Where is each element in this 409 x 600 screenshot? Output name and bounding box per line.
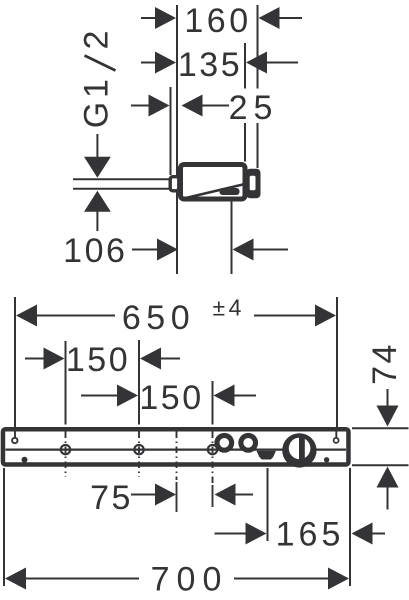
arrowhead 74 down xyxy=(377,406,399,427)
dimension 135 leader right xyxy=(265,62,299,64)
valve right protrusion slot xyxy=(250,176,256,191)
svg-text:2: 2 xyxy=(78,31,116,50)
holder cup trapezoid xyxy=(257,451,277,460)
svg-text:160: 160 xyxy=(184,2,251,40)
dimension 74 shaft upper xyxy=(387,389,389,409)
svg-text:25: 25 xyxy=(229,89,279,127)
extension line 150 x=212.5 xyxy=(212,381,214,425)
extension line x=170.5 for dim 25 xyxy=(170,87,172,175)
svg-text:106: 106 xyxy=(63,232,127,270)
svg-text:74: 74 xyxy=(366,342,404,385)
dimension 700 line left segment xyxy=(23,578,139,580)
dimension 700 line right segment xyxy=(234,578,330,580)
arrowhead G1/2 up xyxy=(84,191,111,212)
dimension 150a leader right xyxy=(158,358,180,360)
dimension 106 leader left xyxy=(132,249,160,251)
centerline crosshair3 x=212.5 xyxy=(212,432,214,484)
extension line 74 top y=428.3 xyxy=(352,427,409,429)
centerline crosshair1 x=65.5 xyxy=(65,432,67,478)
dimension 160 leader left xyxy=(141,17,159,19)
dimension 74 shaft lower xyxy=(387,484,389,510)
dimension 106 leader right xyxy=(251,249,288,251)
select button ring 2 hole xyxy=(243,438,253,448)
extension line x=231.5 for dim 106 xyxy=(231,196,233,274)
arrowhead 700 right xyxy=(328,568,349,590)
svg-text:700: 700 xyxy=(151,561,229,599)
valve main body xyxy=(181,165,246,200)
select button ring 1 xyxy=(214,433,234,453)
svg-text:650: 650 xyxy=(122,299,195,337)
arrowhead 150a right xyxy=(140,348,161,370)
wire extension x=245 lower segment xyxy=(244,123,246,162)
extension line 74 bottom y=465.3 xyxy=(352,464,409,466)
G1/2 pipe upper line xyxy=(73,178,169,180)
svg-text:150: 150 xyxy=(139,379,203,417)
dimension 165 leader right xyxy=(370,533,385,535)
extension line 650 right x=337 xyxy=(336,297,338,438)
dimension 75 leader left xyxy=(131,494,158,496)
arrowhead 135 right xyxy=(246,52,267,74)
centerline bar middle x=176.5 xyxy=(176,432,178,481)
extension line 700 left x=4 xyxy=(3,468,5,586)
valve right protrusion xyxy=(246,169,261,199)
dimension 150b leader left xyxy=(81,395,121,397)
arrowhead 75 left xyxy=(155,484,176,506)
svg-text:±4: ±4 xyxy=(213,295,245,321)
select button ring 1 hole xyxy=(220,438,230,448)
arrowhead G1/2 down xyxy=(84,157,111,178)
G1/2 dim shaft lower xyxy=(96,210,98,231)
extension line left of valve (wall line, x=177) xyxy=(176,5,178,274)
crosshair mount 3 xyxy=(208,445,217,454)
extension line 165 x=267.5 xyxy=(267,468,269,541)
arrowhead 650 left xyxy=(16,305,37,327)
svg-text:165: 165 xyxy=(276,516,345,554)
dimension 75 leader right xyxy=(233,494,253,496)
knob face white disc xyxy=(289,438,311,460)
arrowhead 700 left xyxy=(5,568,26,590)
extension line 150 x=139 xyxy=(138,340,140,425)
G1/2 dim shaft upper xyxy=(96,134,98,158)
slash of G1/2 xyxy=(85,56,116,71)
dimension 650 line left segment xyxy=(34,315,115,317)
arrowhead 150a left xyxy=(44,348,65,370)
arrowhead 135 left xyxy=(155,52,176,74)
shower bar body xyxy=(3,429,349,464)
dimension 135 leader left xyxy=(141,62,159,64)
dimension 25 leader left xyxy=(131,105,151,107)
svg-text:75: 75 xyxy=(90,479,133,517)
arrowhead 75 right xyxy=(215,484,236,506)
arrowhead 25 left xyxy=(149,95,170,117)
dimension 160 leader right xyxy=(277,17,303,19)
arrowhead 165 left xyxy=(246,523,267,545)
extension line x=245 for dim 135 xyxy=(244,43,246,89)
extension line 650 left inside bar xyxy=(14,427,16,438)
select button ring 2 xyxy=(238,433,258,453)
arrowhead 150b left xyxy=(117,385,138,407)
extension line x=257.5 for dim 160 xyxy=(257,5,259,89)
shelf front edge line xyxy=(6,448,347,450)
arrowhead 160 right xyxy=(259,7,280,29)
dimension 150a leader left xyxy=(25,358,47,360)
extension line 700 right x=350 xyxy=(349,468,351,586)
drain dot left xyxy=(22,457,28,463)
wire extension x=257.5 lower segment xyxy=(257,123,259,168)
svg-text:150: 150 xyxy=(66,341,130,379)
G1/2 pipe lower line xyxy=(73,188,169,190)
thermostat knob xyxy=(282,433,316,467)
svg-text:G: G xyxy=(78,102,116,128)
arrowhead 106 left xyxy=(157,239,178,261)
dimension 165 leader left xyxy=(215,533,249,535)
knob center bar xyxy=(299,437,305,460)
arrowhead 106 right xyxy=(233,239,254,261)
dimension 25 leader right xyxy=(200,105,230,107)
crosshair mount 1 xyxy=(61,445,70,454)
screw hole ring right xyxy=(334,438,339,443)
centerline crosshair2 x=139 xyxy=(138,432,140,478)
svg-text:135: 135 xyxy=(178,46,242,84)
valve left nub (G1/2 connector) xyxy=(170,177,179,191)
arrowhead 160 left xyxy=(155,7,176,29)
arrowhead 25 right xyxy=(182,95,203,117)
valve lever blob xyxy=(220,188,240,195)
arrowhead 74 up xyxy=(377,467,399,488)
svg-text:1: 1 xyxy=(78,79,116,98)
dimension 650 line right segment xyxy=(254,315,318,317)
crosshair mount 2 xyxy=(134,445,143,454)
arrowhead 150b right xyxy=(214,385,235,407)
dimension 150b leader right xyxy=(232,395,257,397)
arrowhead 165 right xyxy=(352,523,373,545)
extension line 150 x=65.5 xyxy=(65,341,67,425)
screw hole ring left xyxy=(12,438,17,443)
arrowhead 650 right xyxy=(315,305,336,327)
valve lever diagonal xyxy=(184,184,246,199)
extension line 650 left x=15 xyxy=(14,297,16,438)
extension line 650 right inside bar xyxy=(335,427,337,438)
drain dot right xyxy=(324,457,329,462)
